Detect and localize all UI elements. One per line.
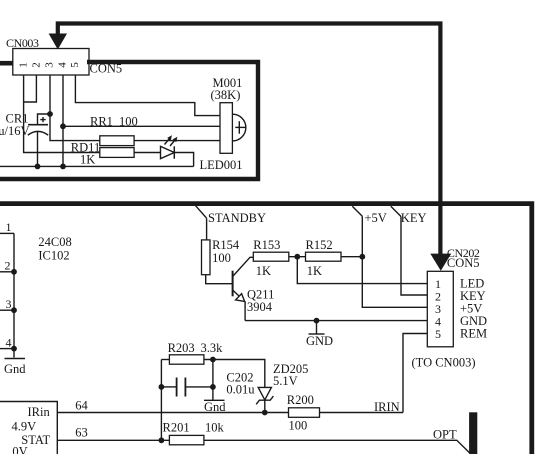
svg-text:3904: 3904 <box>247 300 273 314</box>
resistor R154 <box>202 240 211 275</box>
svg-text:Gnd: Gnd <box>4 362 26 376</box>
IC IC102 pin stubs <box>0 233 14 348</box>
wire RR1 to M001 bottom pin <box>134 140 220 142</box>
svg-text:REM: REM <box>460 327 487 341</box>
svg-text:R152: R152 <box>306 238 333 252</box>
LED LED001 <box>134 135 194 166</box>
zener ZD205 <box>256 387 273 412</box>
svg-text:0u/16V: 0u/16V <box>0 124 30 138</box>
wire CN003 pin1 to RD11 <box>24 75 100 153</box>
node pin4 on rail <box>60 164 66 170</box>
wire +5V to CN202 pin3 <box>362 216 427 307</box>
wire R154 to Q211 base <box>206 275 233 284</box>
svg-text:4.9V: 4.9V <box>12 420 37 434</box>
svg-text:CON5: CON5 <box>447 256 480 270</box>
svg-text:1: 1 <box>6 220 12 234</box>
svg-text:GND: GND <box>306 334 333 348</box>
node A (R153/R152/LED) <box>294 254 300 260</box>
node C202 left <box>159 384 165 390</box>
node GND junction <box>314 318 320 324</box>
node R203 vertical / pin63 wire <box>159 437 165 443</box>
node R203/ZD205 junction <box>210 357 216 363</box>
OPT bus thick bar <box>469 412 477 454</box>
capacitor CR1 <box>28 117 48 166</box>
svg-text:2: 2 <box>5 259 11 273</box>
resistor RR1 <box>100 136 134 146</box>
transistor Q211 <box>233 257 254 320</box>
svg-text:1: 1 <box>17 62 29 68</box>
ground Gnd (IC102) <box>5 358 26 360</box>
svg-text:KEY: KEY <box>401 211 427 225</box>
wire CN003 pin3 to RR1 <box>50 75 100 141</box>
node pin4 junction <box>60 123 66 129</box>
svg-text:R153: R153 <box>253 238 280 252</box>
wire to ZD205 <box>213 360 265 388</box>
svg-text:STANDBY: STANDBY <box>208 211 266 225</box>
svg-text:100: 100 <box>119 115 138 129</box>
svg-text:5: 5 <box>69 62 81 68</box>
svg-text:1K: 1K <box>256 264 271 278</box>
wire thick stub into CN003 left <box>0 61 13 66</box>
wire R203 left vertical <box>160 360 162 441</box>
wire CR1 branch <box>38 114 51 125</box>
svg-text:0V: 0V <box>12 445 27 454</box>
svg-text:IRin: IRin <box>28 405 51 419</box>
resistor R153 <box>253 252 288 261</box>
svg-text:0.01u: 0.01u <box>226 383 255 397</box>
wire CN003 pin4 down to rail <box>62 75 64 166</box>
wire Q211 emitter / GND to CN202 pin4 <box>245 320 427 322</box>
svg-text:100: 100 <box>289 419 308 433</box>
resistor RD11 <box>100 148 134 158</box>
connector CN202 <box>427 271 453 347</box>
svg-text:10k: 10k <box>205 420 225 434</box>
wire KEY to CN202 pin2 <box>401 217 427 296</box>
svg-text:CN003: CN003 <box>6 36 39 50</box>
svg-text:OPT: OPT <box>433 428 457 442</box>
svg-text:5: 5 <box>435 327 441 341</box>
node pin3/CR1 junction <box>47 111 53 117</box>
arrowhead into CN202 <box>430 254 451 271</box>
node CR1 on rail <box>35 164 41 170</box>
wire IRin pin64 <box>57 412 403 414</box>
svg-text:3: 3 <box>6 297 12 311</box>
svg-text:1K: 1K <box>307 264 322 278</box>
svg-text:1K: 1K <box>80 153 95 167</box>
net flag STANDBY <box>196 206 207 218</box>
wire R153 to node A <box>289 256 306 258</box>
svg-text:2: 2 <box>30 62 42 68</box>
svg-text:4: 4 <box>57 62 69 68</box>
svg-text:(38K): (38K) <box>211 88 241 102</box>
ground GND (main) <box>309 321 325 334</box>
svg-text:IC102: IC102 <box>38 249 69 263</box>
svg-text:RR1: RR1 <box>90 115 113 129</box>
net flag KEY <box>391 206 401 216</box>
svg-text:3: 3 <box>44 62 56 68</box>
node ZD205/IRin junction <box>262 410 268 416</box>
wire ground rail (remote block) <box>0 165 194 167</box>
svg-text:3.3k: 3.3k <box>201 341 224 355</box>
IR module M001 <box>220 103 246 154</box>
wire STANDBY to R154 <box>206 218 208 240</box>
wire CN003 pin2 joins pin1 <box>24 75 37 102</box>
resistor R203 <box>169 355 204 364</box>
wire IC102 pins 1-4 tie <box>13 233 15 357</box>
resistor R152 <box>306 252 342 261</box>
svg-text:63: 63 <box>75 425 88 439</box>
arrowhead into CN003 pin 4 <box>49 34 67 50</box>
svg-text:4: 4 <box>6 336 12 350</box>
wire CN003 pin5 to M001 top pin <box>75 75 220 116</box>
node IC pin3 <box>11 307 17 313</box>
svg-text:LED001: LED001 <box>200 158 243 172</box>
connector CN003 <box>13 49 89 76</box>
svg-text:100: 100 <box>212 251 231 265</box>
node IC pin4 <box>11 346 17 352</box>
wire R152 to +5V line <box>341 256 362 258</box>
resistor R201 <box>169 435 204 444</box>
wire to R203 <box>161 359 169 361</box>
svg-text:CON5: CON5 <box>90 62 123 76</box>
wire CN202 pin5 REM to IRIN <box>403 334 427 413</box>
svg-text:R201: R201 <box>163 420 190 434</box>
svg-text:R154: R154 <box>212 238 240 252</box>
node IC pin2 <box>11 269 17 275</box>
main board block border <box>0 204 532 454</box>
capacitor C202 <box>161 378 213 397</box>
node C202 right <box>210 384 216 390</box>
svg-text:64: 64 <box>75 398 88 412</box>
IC micro box corner <box>0 402 57 454</box>
svg-text:5.1V: 5.1V <box>273 374 298 388</box>
svg-text:Gnd: Gnd <box>204 400 226 414</box>
remote unit block border <box>0 62 258 179</box>
svg-text:(TO CN003): (TO CN003) <box>412 356 476 370</box>
wire node A to CN202 pin1 <box>297 257 427 284</box>
ground Gnd (C202) <box>204 399 225 401</box>
wire thick bus from CN003 to CN202 <box>58 24 441 255</box>
wire pin4 to M001 middle pin <box>63 125 220 127</box>
wire R203 right / to Gnd <box>204 360 213 401</box>
svg-text:R200: R200 <box>287 393 314 407</box>
node R152/+5V junction <box>359 254 365 260</box>
svg-text:R203: R203 <box>168 341 195 355</box>
wire STAT pin63 / OPT <box>57 440 469 453</box>
svg-text:+5V: +5V <box>365 211 387 225</box>
resistor R200 <box>289 408 320 418</box>
net flag +5V <box>352 206 362 216</box>
svg-text:24C08: 24C08 <box>38 235 71 249</box>
